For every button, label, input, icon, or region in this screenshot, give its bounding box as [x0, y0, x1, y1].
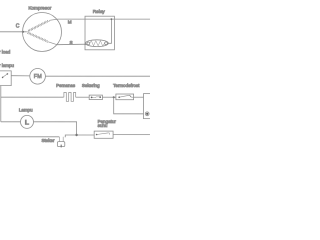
svg-text:Lampu: Lampu — [19, 107, 33, 112]
plug body — [57, 142, 64, 147]
svg-text:Kompresor: Kompresor — [28, 5, 51, 10]
wire S to relay coil — [57, 43, 87, 46]
svg-text:Steker: Steker — [41, 138, 55, 143]
svg-text:Relay: Relay — [93, 9, 106, 14]
node C junction dot — [22, 31, 24, 33]
lamp switch lever — [3, 74, 8, 78]
thermostat right contact — [108, 133, 110, 135]
heater pemanas square-wave element — [64, 92, 76, 101]
wire L to bottom junction — [33, 122, 76, 135]
relay coil right terminal circle — [105, 42, 108, 45]
svg-text:C: C — [16, 24, 20, 30]
wire plug to thermostat — [65, 135, 94, 137]
timer motor circle — [145, 112, 149, 116]
fan motor FM circle — [30, 68, 46, 84]
wire C terminal — [0, 31, 27, 33]
plug prongs — [59, 137, 61, 142]
svg-text:Termodefrost: Termodefrost — [113, 83, 140, 88]
timer motor center dot — [146, 113, 148, 115]
wire fuse to termodefrost — [102, 96, 116, 98]
compressor motor housing circle — [23, 12, 62, 51]
wire FM to right edge — [45, 75, 150, 77]
thermostat switch lever — [97, 133, 109, 135]
relay coil left terminal circle — [87, 42, 90, 45]
svg-text:Sekering: Sekering — [82, 83, 100, 88]
wire L branch from left rail — [1, 121, 21, 123]
wire termodefrost inner right stub — [131, 96, 133, 98]
wire to heater — [1, 96, 64, 98]
termodefrost box — [116, 94, 134, 100]
svg-text:M: M — [68, 19, 72, 24]
thermostat contact dot — [96, 134, 98, 136]
wire termodefrost to timer box — [134, 96, 144, 98]
termodefrost switch lever — [119, 95, 129, 97]
relay coil ellipse — [86, 40, 109, 47]
node S-relay box edge dot — [84, 44, 86, 46]
fuse inner right dot — [99, 96, 101, 98]
winding S (lower zigzag) — [27, 32, 48, 42]
svg-text:r lampu: r lampu — [0, 63, 15, 68]
node bottom junction dot — [75, 134, 77, 136]
wire thermostat to right edge — [113, 134, 150, 136]
pengatur suhu thermostat box — [94, 131, 113, 138]
node defrost branch dot — [113, 96, 115, 98]
wire M lead to horizontal — [50, 19, 59, 20]
wire M power line — [58, 18, 150, 20]
timer box left and bottom edges — [143, 93, 150, 118]
relay box — [85, 16, 114, 50]
wire bottom rail to plug — [0, 136, 59, 138]
wire heater to fuse — [76, 96, 90, 98]
termodefrost left contact dot — [118, 96, 120, 98]
svg-text:suhu: suhu — [98, 123, 108, 128]
svg-text:L: L — [25, 120, 29, 127]
wire left vertical rail — [0, 86, 2, 122]
timer box top edge — [143, 92, 150, 94]
wire relay coil to M line — [107, 19, 111, 43]
node relay tap dot — [111, 18, 113, 20]
wire switch to FM — [11, 75, 30, 77]
lamp switch left contact dot — [2, 77, 4, 79]
wire defrost branch down and right — [114, 97, 144, 114]
fuse sekering box — [89, 95, 102, 100]
fuse inner left dot — [91, 97, 93, 99]
lamp switch box (saklar lampu) — [0, 71, 11, 86]
svg-text:r load: r load — [0, 49, 11, 54]
relay coil zigzag — [90, 41, 105, 46]
winding M (upper zigzag) — [27, 20, 49, 32]
svg-text:Pemanas: Pemanas — [56, 83, 76, 88]
termodefrost right contact tick — [130, 95, 132, 97]
svg-text:S: S — [69, 40, 72, 45]
wire S lead to horizontal — [48, 42, 57, 45]
svg-text:FM: FM — [34, 74, 43, 80]
lamp switch right contact dot — [7, 73, 9, 75]
plug cord stub — [60, 145, 62, 148]
fuse inner wire with jog — [92, 96, 101, 99]
lamp L circle — [20, 115, 33, 128]
